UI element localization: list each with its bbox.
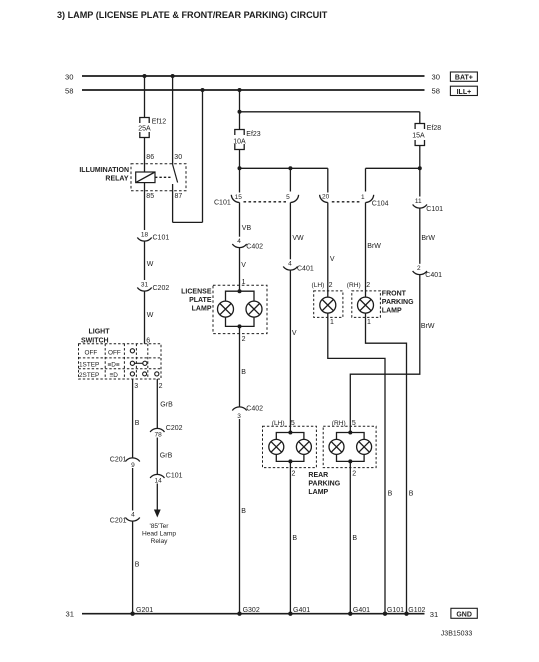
svg-text:BAT+: BAT+ — [455, 75, 473, 82]
svg-text:87: 87 — [175, 193, 183, 200]
svg-text:PARKING: PARKING — [382, 299, 414, 306]
svg-text:LIGHT: LIGHT — [89, 329, 111, 336]
svg-text:5: 5 — [286, 194, 290, 201]
svg-text:15A: 15A — [412, 133, 425, 140]
wire relay 87 up to bus58 — [202, 90, 204, 222]
connector 3 C402 — [232, 407, 246, 411]
wire connector4 to license lamp — [239, 248, 241, 292]
wire drop to connector 20 — [327, 168, 329, 192]
svg-text:BrW: BrW — [421, 323, 435, 330]
ground G302 junction — [237, 612, 241, 616]
svg-text:C202: C202 — [166, 425, 183, 432]
svg-text:20: 20 — [322, 194, 330, 201]
ground G101 junction — [383, 612, 387, 616]
svg-text:VB: VB — [242, 225, 252, 232]
svg-text:10A: 10A — [233, 139, 246, 146]
svg-text:Ef23: Ef23 — [246, 131, 261, 138]
wire switch pin2 down — [156, 379, 158, 428]
svg-text:31: 31 — [141, 282, 149, 289]
connector 31 C202 — [137, 288, 151, 292]
svg-text:OFF: OFF — [108, 349, 121, 356]
svg-text:B: B — [292, 535, 297, 542]
wire Ef28 to junction — [419, 146, 421, 169]
svg-text:9: 9 — [131, 462, 135, 469]
connector 2 C401 — [413, 271, 427, 275]
svg-text:≡D: ≡D — [110, 372, 119, 379]
rear RH bulb left — [329, 439, 344, 454]
wire junction to connector 1 drop — [366, 167, 420, 169]
ground G102 junction — [404, 612, 408, 616]
connector 4 C402 — [232, 244, 246, 248]
wire bus30 to relay contact 30 — [172, 76, 174, 165]
svg-text:VW: VW — [292, 235, 304, 242]
license plate lamp internal wiring — [226, 291, 255, 326]
connector 11 C101 — [413, 205, 427, 209]
relay contact blade — [173, 165, 178, 183]
svg-text:2STEP: 2STEP — [79, 372, 99, 379]
dashed connector link 20-1 — [332, 201, 362, 203]
fuse Ef28 — [415, 124, 424, 146]
wire connector 5 to connector C401-4 — [289, 203, 291, 260]
svg-text:LICENSE: LICENSE — [181, 289, 212, 296]
svg-text:BrW: BrW — [367, 243, 381, 250]
svg-text:C101: C101 — [426, 206, 443, 213]
wire bus30 to fuse Ef12 — [144, 76, 146, 118]
connector 15 C101 — [231, 195, 239, 203]
wire bus58 to Ef23 branch node — [239, 90, 241, 130]
svg-text:3: 3 — [134, 383, 138, 390]
wire 78 to 14 — [156, 438, 158, 475]
wire connector18 to connector31 — [144, 241, 146, 280]
svg-text:C101: C101 — [214, 200, 231, 207]
svg-text:G302: G302 — [243, 607, 260, 614]
svg-text:2: 2 — [292, 471, 296, 478]
svg-text:4: 4 — [131, 512, 135, 519]
connector 78 C202 — [150, 428, 164, 432]
svg-text:14: 14 — [154, 477, 162, 484]
wire connector3 to ground G302 — [239, 419, 241, 614]
svg-text:1STEP: 1STEP — [79, 361, 99, 368]
svg-text:B: B — [388, 491, 393, 498]
svg-text:C402: C402 — [246, 406, 263, 413]
wire rear LH to ground G401 — [289, 461, 291, 613]
svg-text:W: W — [147, 312, 154, 319]
wire relay 87 horizontal — [173, 221, 203, 223]
front parking lamp RH dashed box — [352, 291, 381, 318]
BAT+ terminal box — [450, 72, 477, 81]
svg-text:4: 4 — [288, 261, 292, 268]
rear parking lamp LH internal wiring — [276, 433, 304, 462]
svg-text:J3B15033: J3B15033 — [441, 630, 473, 637]
fuse Ef12 — [140, 118, 149, 138]
svg-text:BrW: BrW — [421, 235, 435, 242]
svg-text:REAR: REAR — [308, 472, 328, 479]
junction at connector 5 drop — [288, 166, 292, 170]
wire connector31 to light switch pin 6 — [144, 291, 146, 344]
wire Ef23 to junction row — [239, 150, 241, 169]
svg-text:C101: C101 — [153, 235, 170, 242]
GND terminal box — [451, 608, 477, 618]
svg-text:B: B — [241, 369, 246, 376]
wire connector C401-4 to rear LH lamp — [289, 270, 291, 432]
fuse Ef23 — [235, 130, 244, 150]
svg-text:C401: C401 — [297, 265, 314, 272]
svg-text:2: 2 — [417, 265, 421, 272]
license lamp bulb left — [218, 301, 234, 317]
ground G401 RH junction — [348, 612, 352, 616]
svg-text:GrB: GrB — [160, 453, 173, 460]
rear RH bulb right — [357, 439, 372, 454]
svg-text:1: 1 — [361, 194, 365, 201]
svg-text:3) LAMP (LICENSE PLATE & FRONT: 3) LAMP (LICENSE PLATE & FRONT/REAR PARK… — [57, 10, 328, 20]
svg-text:C101: C101 — [166, 473, 183, 480]
wire drop to connector 1 — [365, 168, 367, 191]
wire connector 11 to C401-2 — [419, 208, 421, 264]
svg-text:GrB: GrB — [160, 402, 173, 409]
rear parking lamp LH dashed box — [263, 426, 317, 467]
connector 14 C101 — [150, 474, 164, 478]
svg-text:OFF: OFF — [85, 349, 98, 356]
bus 58 wire — [82, 89, 425, 91]
svg-text:ILLUMINATION: ILLUMINATION — [79, 167, 129, 174]
svg-text:LAMP: LAMP — [308, 489, 328, 496]
connector 1 C104 — [366, 195, 374, 203]
svg-text:11: 11 — [415, 198, 422, 205]
svg-text:RELAY: RELAY — [105, 176, 128, 183]
junction below Ef28 — [418, 166, 422, 170]
svg-text:B: B — [409, 491, 414, 498]
svg-text:Relay: Relay — [151, 538, 169, 545]
svg-text:31: 31 — [66, 610, 74, 619]
dashed connector link 15-5 — [244, 201, 287, 203]
wire arrow to head lamp relay — [156, 484, 158, 511]
svg-text:1: 1 — [367, 319, 371, 326]
svg-text:3: 3 — [237, 413, 241, 420]
svg-text:G201: G201 — [136, 607, 153, 614]
svg-text:GND: GND — [456, 611, 472, 618]
svg-text:30: 30 — [65, 73, 73, 82]
svg-text:G102: G102 — [408, 607, 425, 614]
junction on bus30 at relay pin30 drop — [171, 74, 175, 78]
svg-text:C201: C201 — [110, 518, 127, 525]
connector 18 C101 — [137, 238, 151, 242]
svg-text:V: V — [241, 262, 246, 269]
svg-text:G401: G401 — [353, 607, 370, 614]
svg-text:B: B — [135, 562, 140, 569]
svg-text:1: 1 — [330, 319, 334, 326]
wire drop to connector 15 — [239, 168, 241, 192]
license lamp bulb right — [246, 301, 262, 317]
rear parking lamp RH dashed box — [323, 426, 376, 467]
svg-text:V: V — [330, 256, 335, 263]
wire relay 85 to connector 18 — [144, 183, 146, 230]
svg-text:30: 30 — [432, 73, 440, 82]
wire C401-2 to rear RH lamp — [350, 275, 420, 433]
svg-text:PARKING: PARKING — [308, 481, 340, 488]
connector C201 pin 4 — [125, 518, 139, 522]
ground G401 LH junction — [288, 612, 292, 616]
svg-text:LAMP: LAMP — [192, 306, 212, 313]
svg-text:85: 85 — [146, 193, 154, 200]
light switch contacts row 2STEP — [130, 372, 134, 376]
svg-text:ILL+: ILL+ — [457, 89, 472, 96]
svg-text:≡D≡: ≡D≡ — [108, 361, 120, 368]
svg-text:86: 86 — [146, 154, 154, 161]
wire Ef28 junction to connector 11 — [419, 168, 421, 196]
svg-text:15: 15 — [235, 194, 243, 201]
svg-text:FRONT: FRONT — [382, 291, 407, 298]
svg-text:2: 2 — [329, 282, 333, 289]
svg-text:V: V — [292, 330, 297, 337]
wire fuse Ef12 to relay coil 86 — [144, 138, 146, 173]
svg-text:30: 30 — [174, 154, 182, 161]
svg-text:G401: G401 — [293, 607, 310, 614]
junction on bus58 at Ef23 drop — [238, 88, 242, 92]
svg-text:W: W — [147, 261, 154, 268]
junction below Ef23 — [238, 166, 242, 170]
svg-text:B: B — [352, 535, 357, 542]
svg-text:31: 31 — [430, 610, 438, 619]
svg-text:58: 58 — [65, 87, 73, 96]
svg-text:18: 18 — [141, 232, 149, 239]
wire front LH to G101 — [328, 317, 385, 613]
light switch contacts row OFF — [130, 349, 134, 353]
junction on bus30 at fuse Ef12 drop — [143, 74, 147, 78]
wire switch pin3 down — [132, 379, 134, 458]
front parking lamp LH dashed box — [314, 291, 343, 318]
wire connector 15 to connector 4 — [239, 203, 241, 237]
license plate lamp dashed box — [213, 285, 267, 333]
svg-text:(LH): (LH) — [312, 282, 325, 289]
svg-text:4: 4 — [237, 238, 241, 245]
svg-text:'85'Ter: '85'Ter — [149, 523, 169, 530]
wire rear RH to ground G401 — [349, 461, 351, 613]
svg-text:B: B — [241, 508, 246, 515]
svg-text:Head Lamp: Head Lamp — [142, 531, 176, 538]
wire branch to fuse Ef28 — [240, 111, 420, 113]
svg-text:(RH): (RH) — [347, 282, 361, 289]
svg-text:2: 2 — [242, 336, 246, 343]
relay coil — [136, 172, 155, 183]
connector 5 C101 — [290, 195, 298, 203]
rear LH bulb right — [296, 439, 311, 454]
wire drop to connector 5 — [289, 168, 291, 191]
ILL+ terminal box — [450, 86, 477, 95]
connector 20 C101 — [320, 195, 328, 203]
wire C201-4 to ground G201 — [132, 521, 134, 614]
light switch contacts row 1STEP — [130, 361, 134, 365]
light switch dashed box — [79, 344, 162, 379]
connector 4 C401 — [283, 267, 297, 271]
svg-text:25A: 25A — [138, 126, 151, 133]
rear LH bulb left — [269, 439, 284, 454]
svg-text:LAMP: LAMP — [382, 308, 402, 315]
illumination relay U1 dashed box — [131, 164, 186, 191]
junction at branch to Ef28 — [238, 110, 242, 114]
wire C201-9 to C201-4 — [132, 468, 134, 511]
bus 30 wire — [82, 75, 425, 77]
svg-text:58: 58 — [432, 87, 440, 96]
wire front RH to G102 — [366, 317, 407, 613]
svg-text:C401: C401 — [425, 272, 442, 279]
svg-text:2: 2 — [159, 383, 163, 390]
ground G201 junction — [130, 612, 134, 616]
front parking lamp RH bulb — [365, 291, 367, 297]
svg-text:(LH): (LH) — [272, 420, 285, 427]
bus 31 ground wire — [82, 613, 425, 615]
junction on bus58 at relay 87 return — [201, 88, 205, 92]
connector C201 pin 9 — [125, 458, 139, 462]
svg-text:C402: C402 — [246, 244, 263, 251]
svg-text:2: 2 — [352, 471, 356, 478]
wire license lamp to connector 3 — [239, 326, 241, 407]
svg-text:B: B — [135, 420, 140, 427]
relay coil-contact dashed link — [155, 176, 171, 178]
svg-text:C201: C201 — [110, 457, 127, 464]
front parking lamp LH bulb — [327, 291, 329, 297]
svg-text:2: 2 — [366, 282, 370, 289]
svg-text:C104: C104 — [372, 201, 389, 208]
rear parking lamp RH internal wiring — [337, 433, 365, 462]
svg-text:G101: G101 — [387, 607, 404, 614]
svg-text:Ef28: Ef28 — [427, 125, 442, 132]
svg-text:C202: C202 — [153, 285, 170, 292]
wire relay 87 down — [172, 184, 174, 222]
wire junction row to connector 20 drop — [240, 167, 328, 169]
svg-text:78: 78 — [154, 431, 162, 438]
svg-text:PLATE: PLATE — [189, 297, 212, 304]
svg-text:Ef12: Ef12 — [152, 119, 167, 126]
